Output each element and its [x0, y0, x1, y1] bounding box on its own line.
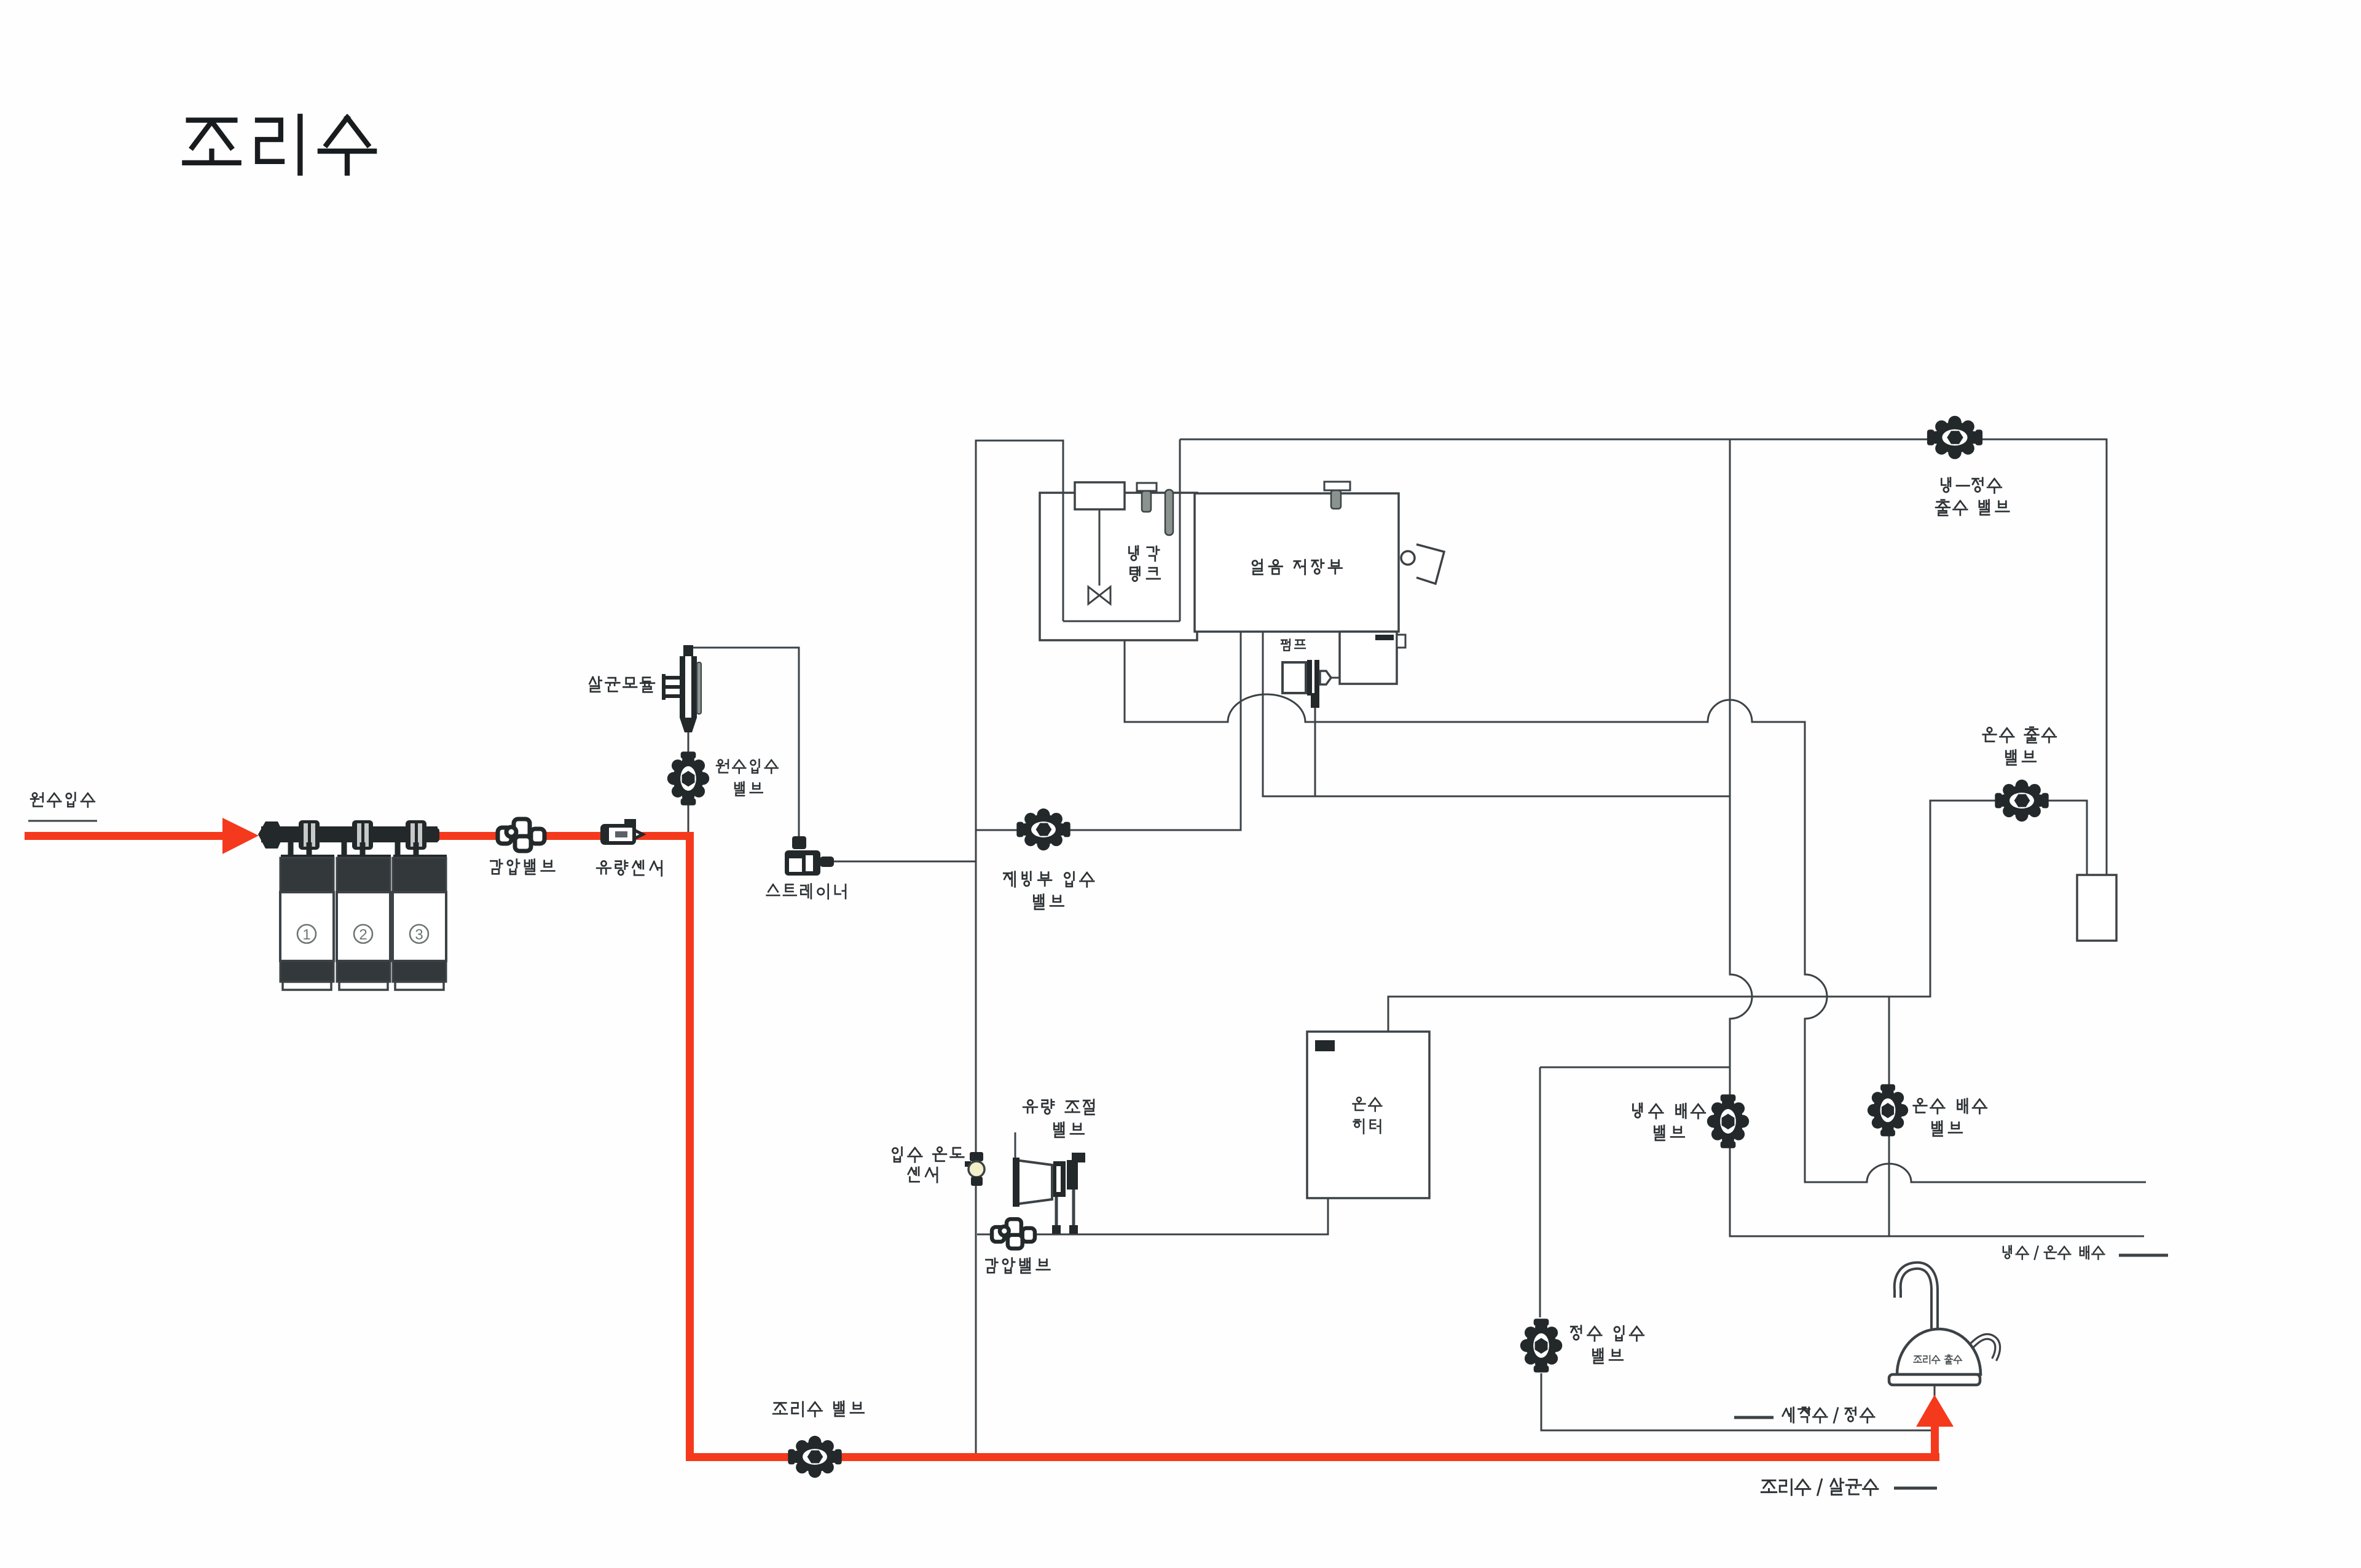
wire purified valve to faucet line — [1541, 1373, 1931, 1430]
filter drop pipes — [288, 842, 294, 859]
label 감압밸브 2 — [986, 1258, 1050, 1273]
label 입수 온도 센서 — [892, 1147, 964, 1162]
wire top cold-water line — [1180, 439, 2107, 875]
valve: cold drain (냉수 배수 밸브) — [1707, 1094, 1749, 1148]
wire faucet stem — [1934, 1382, 1936, 1407]
wire hot drain line — [1888, 997, 1890, 1236]
red faucet arrowhead — [1916, 1395, 1954, 1427]
valve: cooking water (조리수 밸브) — [788, 1436, 841, 1478]
wire purified water down to valve — [1539, 1067, 1541, 1317]
red inlet arrowhead — [222, 818, 259, 854]
svg-text:2: 2 — [359, 927, 367, 943]
tank stirrer shaft — [1099, 509, 1101, 586]
pump outlet pin — [1311, 693, 1319, 708]
wire flow valve antenna — [1015, 1132, 1016, 1162]
tank bolt — [1137, 483, 1157, 491]
label 감압밸브 1 — [490, 860, 554, 874]
wire ice maker inlet line — [976, 632, 1241, 830]
pump side box — [1340, 632, 1397, 684]
wire cooling tank inner bottom — [1063, 621, 1180, 622]
label 조리수/살균수 — [1761, 1479, 1878, 1495]
label 조리수 밸브 — [773, 1401, 863, 1417]
pressure reducing valve 1 (감압밸브) — [498, 819, 544, 851]
flow sensor (유량센서) — [602, 819, 643, 843]
wire tank bottom to drain collector with bridges — [1125, 640, 2146, 1182]
wire heater bottom to flow valve — [977, 1198, 1328, 1234]
label 온수 히터 — [1353, 1097, 1382, 1111]
label 제빙부 입수 밸브 — [1004, 872, 1094, 887]
label 펌프 — [1281, 639, 1305, 650]
label 냉-정수 출수 밸브 — [1941, 478, 2001, 493]
ice chute circle — [1401, 551, 1415, 565]
valve: ice maker inlet (제빙부 입수 밸브) — [1016, 809, 1070, 850]
wire pump outlet down — [1314, 707, 1316, 796]
svg-text:1: 1 — [302, 927, 310, 943]
red bottom line — [686, 1453, 1939, 1461]
tank stirrer motor box — [1075, 482, 1125, 509]
outlet nozzle box — [2077, 875, 2116, 941]
label 온수 출수 밸브 — [1983, 727, 2056, 743]
red riser to faucet — [1931, 1424, 1939, 1459]
filter manifold — [261, 826, 438, 842]
faucet base plate — [1889, 1374, 1980, 1385]
faucet gooseneck — [1898, 1266, 1935, 1333]
wire sterilizer to strainer — [688, 648, 799, 836]
ice storage box — [1195, 493, 1399, 632]
label 얼음 저장부 — [1252, 560, 1342, 574]
wire left riser / U-bend to cooling tank — [976, 441, 1063, 1454]
title 조리수 — [184, 116, 374, 173]
label 스트레이너 — [767, 884, 846, 899]
filter cartridges 1 2 3 — [281, 855, 334, 860]
svg-text:3: 3 — [415, 927, 423, 943]
label 냉수/온수 배수 — [2003, 1245, 2105, 1259]
label 원수입수 — [31, 793, 95, 807]
faucet dome — [1897, 1329, 1981, 1374]
cooling tank outer box — [1040, 493, 1197, 640]
valve: hot water outlet (온수 출수 밸브) — [1995, 780, 2048, 821]
label 온수 배수 밸브 — [1914, 1099, 1987, 1113]
hot water heater box — [1307, 1032, 1429, 1198]
wire tank riser to top line — [1179, 439, 1181, 621]
sterilizer module (살균모듈) — [683, 645, 693, 656]
red vertical line — [686, 832, 694, 1461]
ice box bolt — [1324, 482, 1350, 490]
label 냉각 탱크 — [1129, 546, 1159, 561]
red raw water inlet line — [25, 832, 224, 840]
valve: hot drain (온수 배수 밸브) — [1868, 1084, 1908, 1137]
label 원수입수 밸브 — [717, 759, 778, 774]
flow control valve (유량 조절 밸브) — [1015, 1160, 1052, 1204]
inlet temperature sensor (입수 온도 센서) — [965, 1161, 971, 1167]
wire strainer outlet line — [833, 861, 976, 863]
faucet tiny label — [1914, 1355, 1962, 1364]
valve: purified inlet (정수 입수 밸브) — [1520, 1319, 1562, 1372]
valve: cold-purified outlet (냉-정수 출수 밸브) — [1927, 416, 1982, 460]
label 세척수/정수 — [1734, 1416, 1774, 1419]
faucet side spout — [1965, 1336, 1998, 1360]
pump nozzle — [1320, 671, 1331, 684]
valve: raw water inlet (원수입수 밸브) — [667, 751, 709, 805]
strainer (스트레이너) — [792, 836, 806, 849]
label 유량 조절 밸브 — [1023, 1100, 1094, 1115]
label 살균모듈 — [589, 677, 654, 692]
tank stirrer propeller — [1088, 587, 1110, 604]
ice chute flap — [1416, 544, 1444, 584]
pump body bars — [1307, 660, 1312, 696]
wire sterilizer to raw water valve — [688, 723, 689, 836]
label 유량센서 — [597, 861, 662, 876]
wire ice box drain to cold drain — [1263, 632, 1730, 796]
red line filters to corner — [438, 832, 694, 840]
tank level pin — [1165, 490, 1173, 535]
wire cold drain riser x2815 — [1730, 439, 2144, 1236]
pressure reducing valve 2 (감압밸브) — [992, 1219, 1035, 1249]
label 냉수 배수 밸브 — [1633, 1103, 1705, 1119]
pump motor — [1283, 662, 1306, 693]
label 정수 입수 밸브 — [1571, 1326, 1644, 1341]
wire heater hot line — [1388, 801, 2087, 1032]
wire purified water branch — [1540, 1067, 1730, 1068]
